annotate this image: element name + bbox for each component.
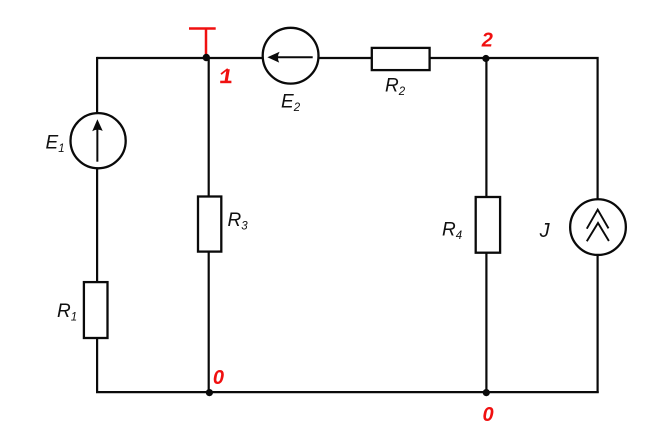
resistor R3 (198, 197, 221, 252)
node 1 (junction dot) (203, 54, 210, 61)
wire top-left: node1 horizontal run (97, 57, 263, 59)
resistor R1 (84, 282, 108, 338)
svg-text:2: 2 (481, 30, 493, 52)
label J (539, 220, 551, 242)
current source J (circle with double chevron up) (570, 199, 626, 255)
node 2 (junction dot) (482, 55, 489, 62)
wire node2 branch lower: R4 to node 0 (485, 253, 487, 392)
label R4 (442, 219, 462, 242)
node 0 right (junction dot) (483, 389, 490, 396)
wire left middle: E1 to R1 (96, 168, 98, 282)
node 2 label (481, 30, 493, 52)
label R1 (57, 301, 77, 324)
svg-text:0: 0 (483, 404, 494, 426)
resistor R2 (372, 48, 430, 70)
wire right upper: corner to J (596, 57, 598, 200)
svg-text:R1: R1 (57, 301, 77, 324)
node 0 right label (483, 404, 494, 426)
svg-text:R2: R2 (385, 75, 406, 98)
svg-text:0: 0 (213, 367, 224, 389)
wire middle lower: R3 to node 0 (208, 252, 210, 393)
wire left lower: R1 to bottom (96, 338, 98, 393)
label R3 (228, 210, 249, 233)
ground reference marker (red) at node 1 (189, 29, 216, 55)
wire top-middle: E2 to R2 (318, 57, 372, 59)
resistor R4 (476, 197, 500, 253)
label E2 (281, 91, 301, 114)
svg-text:E1: E1 (46, 132, 65, 155)
svg-text:J: J (539, 220, 551, 242)
wire bottom rail (96, 391, 599, 393)
node 0 left label (213, 367, 224, 389)
wire top-right: R2 to top-right corner (430, 57, 597, 59)
wire right lower: J to bottom corner (596, 255, 598, 393)
wire left upper: corner to E1 (96, 57, 98, 114)
node 1 label (220, 68, 231, 83)
svg-text:E2: E2 (281, 91, 301, 114)
svg-text:R3: R3 (228, 210, 249, 233)
node 0 left (junction dot) (206, 389, 213, 396)
wire middle upper: node1 to R3 (208, 58, 210, 197)
wire node2 branch upper: node2 to R4 (485, 58, 487, 197)
label R2 (385, 75, 406, 98)
voltage source E1 (circle with up arrow) (71, 113, 126, 168)
label E1 (46, 132, 65, 155)
svg-text:R4: R4 (442, 219, 462, 242)
voltage source E2 (circle with left arrow) (263, 28, 319, 84)
